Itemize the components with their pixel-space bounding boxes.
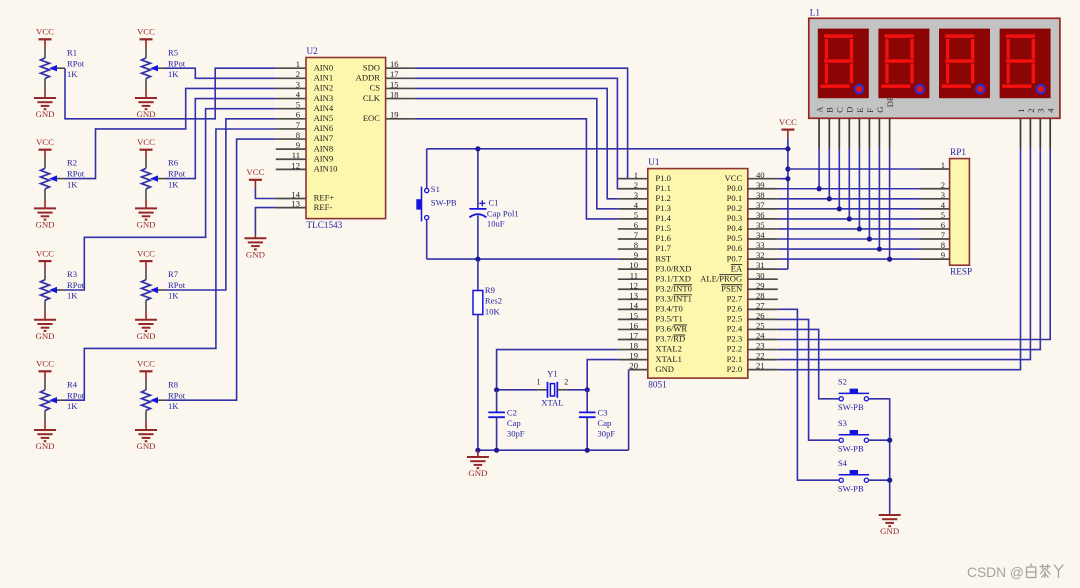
svg-text:Cap Pol1: Cap Pol1 (487, 208, 519, 218)
designator U2 (307, 46, 319, 56)
U1 pin 19 XTAL1 (618, 351, 682, 364)
svg-text:P0.3: P0.3 (727, 213, 743, 223)
svg-text:1K: 1K (67, 401, 78, 411)
svg-text:RPot: RPot (67, 280, 85, 290)
svg-text:1K: 1K (67, 179, 78, 189)
svg-text:10uF: 10uF (487, 219, 505, 229)
VCC power symbol for R2 (36, 137, 54, 158)
U2 pin 15 CS (369, 79, 415, 92)
svg-text:6: 6 (296, 110, 301, 120)
U2 pin 13 REF- (276, 199, 333, 212)
svg-text:39: 39 (756, 180, 765, 190)
svg-text:1K: 1K (168, 401, 179, 411)
wire U2 REF- to ground (255, 208, 275, 239)
VCC power symbol for R3 (36, 248, 54, 269)
svg-text:VCC: VCC (137, 27, 155, 37)
svg-text:P0.6: P0.6 (727, 243, 743, 253)
svg-text:SW-PB: SW-PB (838, 444, 864, 454)
svg-text:P3.4/T0: P3.4/T0 (655, 304, 682, 314)
svg-text:3: 3 (634, 190, 638, 200)
wire P2.1 to display select pin 2 (778, 148, 1031, 359)
junction VCC RP1 wire (785, 166, 790, 171)
svg-text:SW-PB: SW-PB (838, 402, 864, 412)
U2 pin 18 CLK (363, 90, 415, 103)
VCC power symbol for R1 (36, 27, 54, 48)
display pin label A (815, 106, 825, 113)
U1 pin 26 P2.5 (727, 311, 778, 324)
junction segment G (877, 246, 882, 251)
svg-text:1K: 1K (67, 291, 78, 301)
svg-text:18: 18 (629, 341, 638, 351)
display pin label 3 (1036, 109, 1046, 113)
RP1 pin 2 (920, 180, 950, 190)
svg-text:P2.0: P2.0 (727, 364, 743, 374)
RP1 pin 5 (920, 210, 950, 220)
svg-text:29: 29 (756, 280, 765, 290)
junction segment B (827, 196, 832, 201)
svg-text:AIN4: AIN4 (314, 103, 334, 113)
wire VCC vertical net (787, 138, 789, 270)
ground for R5 (135, 89, 157, 119)
value label 8051 (648, 379, 667, 389)
svg-text:S1: S1 (431, 184, 440, 194)
svg-text:P2.2: P2.2 (727, 344, 743, 354)
svg-text:AIN8: AIN8 (314, 143, 334, 153)
svg-text:AIN0: AIN0 (314, 62, 334, 72)
junction VCC rail (785, 146, 790, 151)
svg-text:8: 8 (296, 130, 300, 140)
svg-text:18: 18 (390, 90, 399, 100)
svg-text:AIN9: AIN9 (314, 154, 334, 164)
VCC power symbol for U2 REF+ (246, 167, 275, 199)
svg-text:13: 13 (291, 199, 300, 209)
wire U2 ADDR to P1.1 (415, 78, 618, 188)
wire U1 GND pin to ground rail (628, 370, 630, 451)
wire R4 wiper to U2 AIN6 (65, 129, 276, 400)
wire P2.4 to S2 (778, 329, 839, 398)
potentiometer R6 RPot 1K (142, 158, 186, 200)
wire U2 CLK to P1.3 (415, 99, 618, 209)
svg-text:L1: L1 (810, 7, 821, 17)
ground for buttons (879, 515, 901, 536)
junction segment F (867, 236, 872, 241)
svg-text:RPot: RPot (168, 390, 186, 400)
svg-text:R4: R4 (67, 379, 78, 389)
svg-text:2: 2 (634, 180, 638, 190)
svg-text:P0.7: P0.7 (727, 253, 743, 263)
svg-text:VCC: VCC (36, 137, 54, 147)
IC U2 body (TLC1543 ADC) (306, 58, 386, 219)
svg-text:3: 3 (941, 190, 945, 200)
U1 pin 33 P0.6 (727, 240, 778, 253)
wire R2 wiper to U2 AIN2 (65, 88, 276, 178)
svg-text:AIN6: AIN6 (314, 123, 334, 133)
display pin label C (835, 107, 845, 113)
wire U2 SDO to P1.0 (415, 68, 627, 179)
junction crystal left node (494, 387, 499, 392)
svg-text:40: 40 (756, 170, 765, 180)
IC U1 body (8051 MCU) (648, 169, 748, 379)
wire R3 wiper to U2 AIN4 (65, 109, 276, 290)
svg-text:R1: R1 (67, 47, 77, 57)
watermark text (967, 564, 1063, 581)
U2 pin 4 AIN3 (276, 90, 333, 103)
svg-text:U1: U1 (648, 157, 660, 167)
display pin G lead (878, 118, 880, 148)
display pin 4 lead (1049, 118, 1051, 148)
potentiometer R3 RPot 1K (41, 269, 85, 311)
potentiometer R8 RPot 1K (142, 379, 186, 421)
VCC power symbol for R5 (137, 27, 155, 48)
svg-text:27: 27 (756, 300, 765, 310)
wire P0.7 bus to RP1 pin 9 (778, 258, 920, 260)
svg-text:GND: GND (136, 109, 155, 119)
svg-text:P1.2: P1.2 (655, 193, 671, 203)
svg-text:DP: DP (885, 96, 895, 107)
potentiometer R2 RPot 1K (41, 158, 85, 200)
U2 pin 9 AIN8 (276, 140, 333, 153)
svg-text:28: 28 (756, 290, 765, 300)
U1 pin 14 P3.4/T0 (618, 300, 683, 313)
display pin label 4 (1046, 108, 1056, 113)
U2 pin 19 EOC (363, 110, 415, 123)
wire P0.2 bus to RP1 pin 4 (778, 208, 920, 210)
wire P0.1 bus to RP1 pin 3 (778, 198, 920, 200)
svg-text:9: 9 (941, 250, 945, 260)
potentiometer R5 RPot 1K (142, 47, 186, 89)
svg-text:VCC: VCC (137, 248, 155, 258)
display pin 2 lead (1029, 118, 1031, 148)
svg-text:REF-: REF- (314, 202, 333, 212)
svg-text:VCC: VCC (36, 359, 54, 369)
U1 pin 7 P1.6 (618, 230, 672, 243)
wire S3 to ground rail (869, 439, 890, 441)
svg-text:AIN7: AIN7 (314, 133, 334, 143)
svg-text:P2.1: P2.1 (727, 354, 743, 364)
svg-text:D: D (845, 107, 855, 113)
digit 3 of display L1 (939, 29, 990, 99)
svg-text:3: 3 (296, 79, 300, 89)
svg-text:7: 7 (634, 230, 639, 240)
junction VCC pin40 (785, 176, 790, 181)
display pin C lead (838, 118, 840, 148)
U1 pin 3 P1.2 (618, 190, 671, 203)
U1 pin 11 P3.1/TXD (618, 270, 691, 283)
VCC power symbol for R7 (137, 248, 155, 269)
svg-text:RP1: RP1 (950, 147, 966, 157)
svg-text:SW-PB: SW-PB (431, 197, 457, 207)
RP1 pin 9 (920, 250, 950, 260)
junction segment C (837, 206, 842, 211)
wire P0.4 bus to RP1 pin 6 (778, 228, 920, 230)
svg-text:P3.0/RXD: P3.0/RXD (655, 263, 691, 273)
resistor pack RP1 RESP (950, 159, 970, 266)
svg-text:GND: GND (35, 441, 54, 451)
junction segment E (857, 226, 862, 231)
ground for crystal circuit (467, 450, 489, 478)
junction S4 ground (887, 478, 892, 483)
junction segment A (817, 186, 822, 191)
svg-text:P2.7: P2.7 (727, 294, 743, 304)
svg-text:4: 4 (634, 200, 639, 210)
svg-text:R3: R3 (67, 269, 77, 279)
U1 pin 36 P0.3 (727, 210, 778, 223)
VCC power symbol for R4 (36, 359, 54, 380)
svg-text:9: 9 (296, 140, 300, 150)
svg-text:5: 5 (296, 100, 300, 110)
svg-text:RST: RST (655, 253, 672, 263)
svg-text:36: 36 (756, 210, 765, 220)
svg-text:S3: S3 (838, 418, 847, 428)
svg-text:S2: S2 (838, 377, 847, 387)
svg-text:RESP: RESP (950, 266, 972, 276)
U2 pin 7 AIN6 (276, 120, 334, 133)
svg-text:20: 20 (629, 361, 638, 371)
U1 pin 23 P2.2 (727, 341, 778, 354)
svg-text:33: 33 (756, 240, 765, 250)
RP1 pin 7 (920, 230, 950, 240)
U1 pin 27 P2.6 (727, 300, 778, 313)
svg-text:P1.4: P1.4 (655, 213, 671, 223)
designator RP1 (950, 147, 966, 157)
U1 pin 20 GND (629, 361, 674, 374)
svg-text:AIN10: AIN10 (314, 164, 338, 174)
RP1 pin 1 (920, 160, 950, 170)
svg-text:1K: 1K (168, 179, 179, 189)
wire display segment D to P0.3 bus (848, 148, 850, 219)
svg-text:34: 34 (756, 230, 765, 240)
svg-text:R7: R7 (168, 269, 179, 279)
digit 1 of display L1 (818, 29, 869, 99)
svg-text:C2: C2 (507, 407, 517, 417)
wire ground rail under crystal (478, 449, 629, 451)
svg-text:23: 23 (756, 341, 765, 351)
svg-text:XTAL: XTAL (541, 397, 563, 407)
U1 pin 39 P0.0 (727, 180, 778, 193)
ground for R3 (34, 311, 56, 341)
designator L1 (810, 7, 821, 17)
svg-text:AIN2: AIN2 (314, 83, 334, 93)
wire display segment B to P0.1 bus (828, 148, 830, 199)
svg-text:RPot: RPot (67, 58, 85, 68)
VCC power symbol for R6 (137, 137, 155, 158)
svg-text:P3.1/TXD: P3.1/TXD (655, 273, 691, 283)
wire XTAL2 to crystal (497, 350, 618, 390)
U1 pin 16 P3.6/WR (618, 321, 688, 334)
wire R6 wiper to U2 AIN3 (166, 99, 276, 179)
junction C3 bottom (585, 448, 590, 453)
svg-text:Cap: Cap (598, 418, 612, 428)
svg-text:GND: GND (246, 249, 265, 259)
svg-text:15: 15 (390, 79, 399, 89)
svg-text:21: 21 (756, 361, 765, 371)
svg-text:R5: R5 (168, 47, 178, 57)
wire R5 wiper to U2 AIN1 (166, 68, 276, 78)
value label RESP (950, 266, 972, 276)
U2 pin 16 SDO (363, 59, 416, 72)
svg-text:S4: S4 (838, 458, 848, 468)
switch S1 SW-PB (416, 149, 457, 259)
svg-text:P1.0: P1.0 (655, 173, 671, 183)
junction C2 bottom (494, 448, 499, 453)
svg-text:SW-PB: SW-PB (838, 484, 864, 494)
svg-text:2: 2 (296, 69, 300, 79)
U2 pin 11 AIN9 (276, 150, 333, 163)
svg-text:16: 16 (390, 59, 399, 69)
wire RST net (427, 258, 618, 260)
display pin E lead (858, 118, 860, 148)
svg-text:VCC: VCC (137, 137, 155, 147)
U2 pin 3 AIN2 (276, 79, 333, 92)
svg-text:GND: GND (880, 526, 899, 536)
wire R1 wiper to U2 AIN0 (65, 68, 276, 119)
wire display segment C to P0.2 bus (838, 148, 840, 209)
U1 pin 8 P1.7 (618, 240, 672, 253)
U1 pin 25 P2.4 (727, 321, 778, 334)
svg-text:GND: GND (468, 468, 487, 478)
svg-text:U2: U2 (307, 46, 319, 56)
U1 pin 29 PSEN (721, 280, 778, 293)
svg-text:GND: GND (655, 364, 674, 374)
svg-text:19: 19 (390, 110, 399, 120)
display pin label G (875, 107, 885, 113)
svg-text:P1.3: P1.3 (655, 203, 671, 213)
svg-text:16: 16 (629, 321, 638, 331)
svg-text:17: 17 (629, 331, 638, 341)
svg-text:C: C (835, 107, 845, 113)
svg-text:25: 25 (756, 321, 765, 331)
ground for R2 (34, 200, 56, 230)
svg-text:P2.6: P2.6 (727, 304, 743, 314)
U1 pin 22 P2.1 (727, 351, 778, 364)
wire VCC rail (reset circuit) (427, 148, 788, 150)
U1 pin 10 P3.0/RXD (618, 260, 692, 273)
ground for R7 (135, 311, 157, 341)
svg-text:1: 1 (537, 378, 541, 387)
digit 4 of display L1 (1000, 29, 1051, 99)
U1 pin 13 P3.3/INT1 (618, 290, 692, 303)
svg-text:2: 2 (941, 180, 945, 190)
display pin label 2 (1026, 109, 1036, 113)
svg-text:1: 1 (941, 160, 945, 170)
junction C1 top (475, 146, 480, 151)
U1 pin 12 P3.2/INT0 (618, 280, 692, 293)
U1 pin 6 P1.5 (618, 220, 671, 233)
wire display segment F to P0.5 bus (868, 148, 870, 239)
svg-text:30: 30 (756, 270, 765, 280)
svg-text:CS: CS (369, 83, 380, 93)
potentiometer R1 RPot 1K (41, 47, 85, 89)
svg-text:37: 37 (756, 200, 765, 210)
U1 pin 34 P0.5 (727, 230, 778, 243)
RP1 pin 8 (920, 240, 950, 250)
ground for R8 (135, 421, 157, 451)
svg-text:7: 7 (941, 230, 946, 240)
svg-text:1: 1 (1016, 109, 1026, 113)
svg-text:C1: C1 (489, 198, 499, 208)
U1 pin 38 P0.1 (727, 190, 778, 203)
potentiometer R7 RPot 1K (142, 269, 186, 311)
svg-text:9: 9 (634, 250, 638, 260)
svg-text:F: F (865, 108, 875, 113)
ground for R4 (34, 421, 56, 451)
switch S4 SW-PB (838, 458, 869, 493)
junction crystal right node (585, 387, 590, 392)
svg-text:8: 8 (941, 240, 945, 250)
svg-text:Y1: Y1 (547, 368, 558, 378)
svg-text:4: 4 (941, 200, 946, 210)
svg-text:P1.1: P1.1 (655, 183, 671, 193)
crystal Y1 XTAL (497, 368, 588, 407)
svg-text:GND: GND (35, 331, 54, 341)
U2 pin 12 AIN10 (276, 160, 338, 173)
svg-text:10K: 10K (485, 306, 501, 316)
svg-text:GND: GND (35, 220, 54, 230)
display pin F lead (868, 118, 870, 148)
wire P0.3 bus to RP1 pin 5 (778, 218, 920, 220)
svg-text:AIN1: AIN1 (314, 73, 334, 83)
junction segment DP (887, 257, 892, 262)
svg-text:VCC: VCC (36, 27, 54, 37)
value label TLC1543 (307, 220, 343, 230)
display pin 3 lead (1039, 118, 1041, 148)
svg-text:12: 12 (291, 160, 300, 170)
svg-text:R2: R2 (67, 158, 77, 168)
svg-text:1K: 1K (168, 291, 179, 301)
svg-text:XTAL2: XTAL2 (655, 344, 682, 354)
wire P2.6 to S4 (778, 309, 839, 480)
capacitor C1 Cap Pol1 10uF (469, 149, 518, 259)
U1 pin 17 P3.7/RD (618, 331, 686, 344)
wire display segment G to P0.6 bus (878, 148, 880, 249)
svg-text:VCC: VCC (137, 359, 155, 369)
wire P2.0 to display select pin 1 (778, 148, 1021, 369)
svg-text:RPot: RPot (67, 169, 85, 179)
svg-text:38: 38 (756, 190, 765, 200)
svg-text:SDO: SDO (363, 62, 380, 72)
wire P0.6 bus to RP1 pin 8 (778, 248, 920, 250)
svg-text:P1.6: P1.6 (655, 233, 671, 243)
svg-text:R8: R8 (168, 379, 178, 389)
svg-text:35: 35 (756, 220, 765, 230)
svg-text:7: 7 (296, 120, 301, 130)
svg-text:10: 10 (629, 260, 638, 270)
display L1 body (4-digit 7-segment) (809, 18, 1060, 118)
svg-text:RPot: RPot (168, 58, 186, 68)
svg-text:CSDN @: CSDN @ (967, 565, 1024, 580)
svg-text:32: 32 (756, 250, 765, 260)
U1 pin 28 P2.7 (727, 290, 778, 303)
junction segment D (847, 216, 852, 221)
svg-text:RPot: RPot (168, 169, 186, 179)
resistor R9 Res2 10K (473, 259, 502, 450)
svg-text:P0.2: P0.2 (727, 203, 743, 213)
display pin 1 lead (1020, 118, 1022, 148)
svg-text:R9: R9 (485, 285, 495, 295)
svg-text:6: 6 (634, 220, 639, 230)
display pin label 1 (1016, 109, 1026, 113)
junction C1 bottom (475, 257, 480, 262)
display pin D lead (848, 118, 850, 148)
U1 pin 40 VCC (725, 170, 778, 183)
svg-text:2: 2 (564, 378, 568, 387)
wire XTAL1 to crystal (587, 360, 618, 390)
svg-text:22: 22 (756, 351, 765, 361)
svg-text:AIN5: AIN5 (314, 113, 334, 123)
capacitor C3 30pF (579, 390, 615, 450)
svg-text:11: 11 (292, 150, 300, 160)
svg-text:A: A (815, 106, 825, 113)
